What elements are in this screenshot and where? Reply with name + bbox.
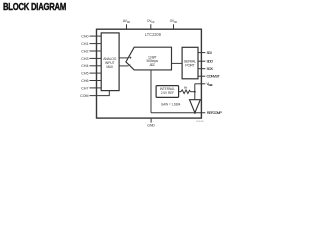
- svg-text:MUX: MUX: [106, 65, 114, 69]
- svg-text:BLOCK DIAGRAM: BLOCK DIAGRAM: [3, 2, 66, 13]
- svg-text:PORT: PORT: [185, 63, 195, 68]
- svg-text:DVDD: DVDD: [147, 18, 154, 24]
- svg-text:8k: 8k: [184, 86, 188, 90]
- svg-text:SCK: SCK: [207, 67, 214, 71]
- svg-text:REFCOMP: REFCOMP: [207, 111, 222, 115]
- svg-text:SDI: SDI: [207, 51, 212, 55]
- svg-text:ADC: ADC: [150, 63, 156, 67]
- svg-text:CH7: CH7: [81, 86, 88, 90]
- svg-text:CH5: CH5: [81, 72, 88, 76]
- svg-text:COM: COM: [80, 94, 88, 98]
- svg-text:CH4: CH4: [81, 64, 88, 68]
- svg-text:2308 BD: 2308 BD: [196, 121, 204, 123]
- svg-text:OVDD: OVDD: [170, 18, 177, 24]
- svg-text:CH1: CH1: [81, 42, 88, 46]
- svg-text:2.5V REF: 2.5V REF: [161, 91, 174, 95]
- svg-text:CH3: CH3: [81, 57, 88, 61]
- svg-text:SDO: SDO: [207, 60, 214, 64]
- svg-text:CH6: CH6: [81, 79, 88, 83]
- svg-text:GAIN = 1.6384: GAIN = 1.6384: [161, 103, 181, 107]
- svg-text:CONVST: CONVST: [207, 75, 221, 79]
- svg-text:CH0: CH0: [81, 35, 88, 39]
- svg-text:CH2: CH2: [81, 49, 88, 53]
- svg-text:LTC2308: LTC2308: [145, 32, 162, 37]
- svg-text:GND: GND: [147, 123, 155, 127]
- svg-text:AVDD: AVDD: [123, 18, 130, 24]
